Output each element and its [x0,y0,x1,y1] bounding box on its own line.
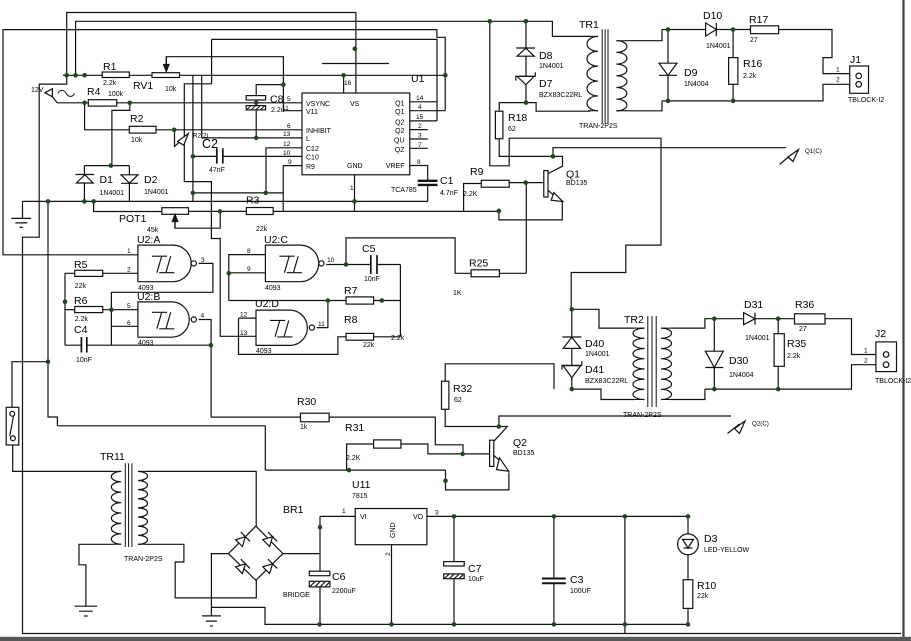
svg-text:10: 10 [283,150,291,157]
svg-text:R10: R10 [697,580,716,592]
svg-text:6: 6 [287,123,291,130]
svg-text:D9: D9 [684,67,698,79]
svg-text:16: 16 [344,80,352,87]
svg-text:Q1(C): Q1(C) [805,148,822,155]
svg-text:10uF: 10uF [468,576,484,583]
svg-text:22k: 22k [256,226,268,233]
svg-text:22k: 22k [75,283,87,290]
svg-text:TBLOCK-I2: TBLOCK-I2 [848,97,884,104]
svg-text:BZX83C22RL: BZX83C22RL [585,378,628,385]
svg-text:27: 27 [799,326,807,333]
svg-text:C4: C4 [74,324,88,336]
svg-text:GND: GND [390,522,397,538]
svg-text:1: 1 [350,185,354,192]
svg-text:TR2: TR2 [624,314,644,326]
svg-text:Q2: Q2 [395,128,404,135]
svg-text:C8: C8 [270,94,284,106]
svg-text:2200uF: 2200uF [332,588,356,595]
svg-text:2.2K: 2.2K [463,191,478,198]
svg-text:13: 13 [240,330,248,337]
svg-text:14: 14 [416,95,424,102]
svg-text:1K: 1K [453,290,462,297]
svg-text:2.2k: 2.2k [75,316,89,323]
svg-text:2.2k: 2.2k [787,353,801,360]
svg-text:2.2k: 2.2k [391,335,405,342]
svg-text:L: L [306,136,310,143]
svg-text:D7: D7 [539,78,553,90]
svg-text:2: 2 [864,358,868,365]
svg-text:12: 12 [283,141,291,148]
svg-text:10k: 10k [165,86,177,93]
svg-text:R9: R9 [470,166,484,178]
svg-text:VS: VS [350,101,360,108]
svg-text:BD135: BD135 [513,450,535,457]
svg-text:4093: 4093 [256,348,272,355]
svg-text:TR1: TR1 [579,19,599,31]
svg-text:D10: D10 [703,10,722,22]
svg-text:D30: D30 [729,355,748,367]
svg-text:TBLOCK-I2: TBLOCK-I2 [875,378,911,385]
svg-text:D2: D2 [144,174,158,186]
svg-text:1N4001: 1N4001 [539,63,564,70]
svg-text:1: 1 [864,348,868,355]
svg-text:1N4004: 1N4004 [729,372,754,379]
svg-text:4093: 4093 [138,340,154,347]
svg-text:1N4001: 1N4001 [100,190,125,197]
svg-text:5: 5 [287,96,291,103]
svg-text:Q1: Q1 [395,109,404,116]
svg-text:Q1: Q1 [395,101,404,108]
svg-text:VO: VO [413,514,424,521]
svg-text:45k: 45k [147,227,159,234]
svg-text:R3: R3 [246,195,260,207]
svg-text:U2:C: U2:C [264,234,288,246]
svg-text:R1: R1 [103,61,117,73]
svg-text:10: 10 [327,257,335,264]
svg-text:2: 2 [836,77,840,84]
svg-text:22k: 22k [697,593,709,600]
svg-text:D41: D41 [585,364,604,376]
svg-text:R35: R35 [787,338,806,350]
svg-text:2: 2 [385,552,392,556]
svg-text:BRIDGE: BRIDGE [283,592,310,599]
svg-text:R17: R17 [749,14,768,26]
svg-text:8: 8 [247,248,251,255]
svg-text:1: 1 [127,248,131,255]
svg-text:GND: GND [347,163,363,170]
svg-text:4.7nF: 4.7nF [440,190,458,197]
svg-text:C5: C5 [362,243,376,255]
svg-text:J2: J2 [875,328,886,340]
svg-text:R31: R31 [345,422,364,434]
svg-text:4: 4 [418,104,422,111]
svg-text:C12: C12 [306,146,319,153]
svg-text:4: 4 [201,313,205,320]
svg-text:QZ: QZ [395,147,405,154]
svg-text:3: 3 [418,133,422,140]
svg-text:D3: D3 [704,533,718,545]
svg-text:10nF: 10nF [76,357,92,364]
svg-text:U11: U11 [352,479,371,491]
svg-text:TRAN-2P2S: TRAN-2P2S [124,556,163,563]
svg-text:RV1: RV1 [133,80,153,92]
svg-text:13: 13 [283,131,291,138]
svg-text:R2: R2 [130,113,144,125]
svg-text:Q2: Q2 [513,437,527,449]
svg-text:10k: 10k [131,137,143,144]
svg-text:TR11: TR11 [100,451,125,463]
svg-text:TCA785: TCA785 [391,187,417,194]
svg-text:VI: VI [360,514,367,521]
svg-text:2.2K: 2.2K [346,455,361,462]
svg-text:1N4001: 1N4001 [585,351,610,358]
svg-text:R5: R5 [74,259,88,271]
svg-text:3: 3 [201,257,205,264]
svg-text:4093: 4093 [265,285,281,292]
svg-text:1N4004: 1N4004 [684,81,709,88]
svg-text:62: 62 [508,126,516,133]
svg-text:7815: 7815 [352,493,368,500]
svg-text:R18: R18 [508,112,527,124]
svg-text:R4: R4 [87,86,101,98]
svg-text:TRAN-2P2S: TRAN-2P2S [579,123,618,130]
svg-text:11: 11 [318,321,325,328]
svg-text:U2:D: U2:D [255,298,279,310]
svg-text:V11: V11 [306,109,318,116]
svg-text:1: 1 [836,67,840,74]
svg-text:27: 27 [750,37,758,44]
svg-text:7: 7 [418,142,422,149]
svg-text:9: 9 [288,159,292,166]
svg-text:U2:B: U2:B [137,291,160,303]
svg-text:INHIBIT: INHIBIT [306,128,332,135]
svg-text:Q1: Q1 [566,169,580,181]
svg-text:U1: U1 [411,73,425,85]
svg-text:3: 3 [435,510,439,517]
svg-text:R36: R36 [795,299,814,311]
svg-text:6: 6 [127,320,131,327]
svg-text:1: 1 [342,508,346,515]
svg-text:62: 62 [454,397,462,404]
svg-text:15: 15 [416,114,424,121]
svg-text:R9: R9 [306,164,315,171]
svg-text:D40: D40 [585,338,604,350]
svg-text:C10: C10 [306,155,319,162]
svg-text:C7: C7 [468,563,482,575]
svg-text:47nF: 47nF [209,167,225,174]
svg-text:VREF: VREF [386,163,405,170]
svg-text:8: 8 [417,159,421,166]
svg-text:C3: C3 [570,574,584,586]
svg-text:J1: J1 [850,54,861,66]
svg-text:5: 5 [127,303,131,310]
svg-text:Q2: Q2 [395,120,404,127]
svg-text:D8: D8 [539,50,553,62]
svg-text:D31: D31 [744,299,763,311]
svg-text:9: 9 [247,266,251,273]
svg-text:10nF: 10nF [364,276,380,283]
svg-text:D1: D1 [100,174,114,186]
svg-text:12V: 12V [31,87,44,94]
svg-text:1N4001: 1N4001 [745,335,770,342]
svg-text:BD135: BD135 [566,180,588,187]
svg-text:22k: 22k [363,342,375,349]
svg-text:2: 2 [418,123,422,130]
svg-text:4093: 4093 [138,285,154,292]
svg-text:11: 11 [282,105,289,112]
svg-text:POT1: POT1 [119,213,147,225]
svg-text:100UF: 100UF [570,588,591,595]
svg-text:QU: QU [394,138,405,145]
svg-text:12: 12 [240,312,248,319]
svg-text:R8: R8 [344,314,358,326]
svg-text:TRAN-2P2S: TRAN-2P2S [623,412,662,419]
svg-text:R30: R30 [297,396,316,408]
svg-text:R2(2): R2(2) [193,133,208,140]
svg-text:2.2k: 2.2k [103,80,117,87]
svg-text:U2:A: U2:A [137,234,160,246]
svg-text:R6: R6 [74,295,88,307]
svg-text:BR1: BR1 [283,504,304,516]
svg-text:C6: C6 [332,571,346,583]
svg-text:R32: R32 [453,383,472,395]
svg-text:BZX83C22RL: BZX83C22RL [539,92,582,99]
svg-text:R25: R25 [469,258,488,270]
svg-text:LED-YELLOW: LED-YELLOW [704,547,750,554]
svg-text:1N4001: 1N4001 [706,43,731,50]
svg-text:1k: 1k [300,424,308,431]
svg-text:R16: R16 [743,58,762,70]
svg-text:C1: C1 [440,175,454,187]
svg-text:R7: R7 [344,285,358,297]
svg-text:2: 2 [127,267,131,274]
svg-text:1N4001: 1N4001 [144,189,169,196]
svg-text:VSYNC: VSYNC [306,101,330,108]
svg-text:2.2k: 2.2k [743,73,757,80]
svg-text:100k: 100k [108,91,124,98]
svg-text:Q2(C): Q2(C) [752,421,769,428]
